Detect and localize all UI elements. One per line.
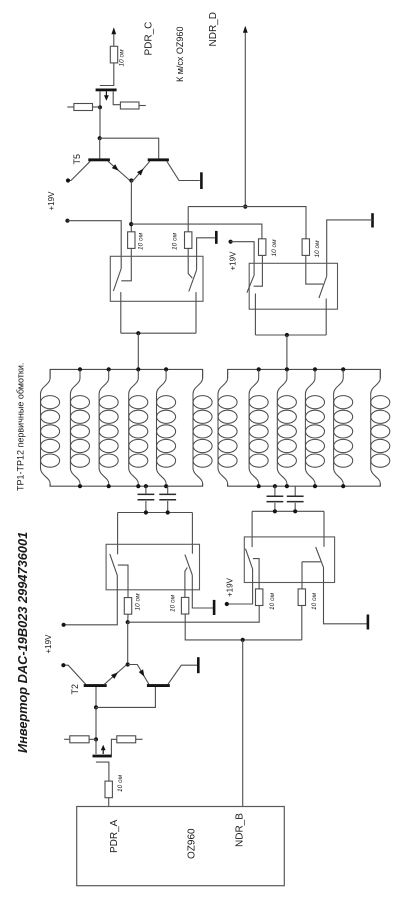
transistor T2a emitter leg: [105, 665, 127, 684]
terminal T-bar TB2: [371, 213, 374, 227]
junction bottom rail R3: [313, 484, 317, 488]
mosfet Q2 source wire: [99, 91, 101, 107]
wire U2 bus to transformer rail: [286, 335, 288, 369]
junction J9 T2 base node: [94, 705, 98, 709]
U2 left switch output wire: [254, 294, 256, 336]
mosfet Q2 body arrow: [104, 91, 109, 101]
junction U1 bus: [136, 331, 140, 335]
wire TB2 to box B2 right switch: [327, 220, 373, 276]
junction bottom rail L5: [144, 484, 148, 488]
transistor T2a base bar: [84, 684, 107, 687]
transformer winding TP3: [99, 370, 118, 486]
resistor R5 10om: [185, 232, 192, 249]
resistor R1 10om: [110, 46, 117, 63]
terminal T-bar TB5: [197, 657, 200, 673]
wire cap bus left: [118, 512, 193, 514]
junction J1: [98, 105, 102, 109]
switch module U4 box: [244, 537, 334, 583]
U1 right switch blade: [189, 270, 197, 292]
svg-text:ТР1-ТР12 первичные обмотки.: ТР1-ТР12 первичные обмотки.: [15, 363, 25, 491]
wire cap bus right: [252, 510, 324, 512]
mosfet Q1 channel bar: [93, 755, 112, 758]
junction bottom rail R4: [341, 484, 345, 488]
svg-text:10 ом: 10 ом: [169, 594, 176, 612]
wire U1 output bus: [121, 332, 196, 334]
terminal dot T5a collector: [66, 178, 70, 182]
wire R11 to NDR_B rail: [301, 606, 303, 640]
resistor R14 10om: [105, 781, 112, 798]
wire +19V rail lower: [128, 605, 260, 622]
transistor T5a collector leg: [68, 161, 90, 180]
wire bus leg to U4 left: [251, 511, 253, 547]
label T2: [70, 684, 80, 695]
svg-text:T2: T2: [70, 684, 80, 695]
junction J7 NDR_B rail: [241, 638, 245, 642]
capacitor C3: [267, 486, 284, 511]
svg-text:+19V: +19V: [44, 634, 53, 654]
wire R4 to B1 contact: [121, 248, 131, 280]
capacitor C2: [159, 486, 176, 512]
resistor R11 10om: [298, 589, 305, 606]
wire rail J4 to R6: [131, 224, 262, 239]
svg-text:10 ом: 10 ом: [314, 240, 321, 258]
resistor R9 10om: [181, 597, 188, 614]
junction bottom rail L3: [136, 484, 140, 488]
capacitor C1: [138, 486, 155, 512]
transformer winding TP11: [334, 370, 353, 486]
wire rail node to T2 emitters: [127, 622, 129, 664]
wire NDR_B down to OZ960: [242, 640, 244, 807]
label K m/sx OZ960: [175, 27, 185, 82]
mosfet Q2 drain wire: [113, 91, 120, 104]
junction J8 T2 emitters: [126, 662, 130, 666]
wire U1 bus to transformer rail: [137, 333, 139, 369]
terminal T-bar TB3: [213, 600, 216, 615]
junction top rail L1: [78, 367, 82, 371]
resistor R10 10om: [256, 589, 263, 606]
transformer winding TP1: [41, 370, 60, 486]
transistor T2a base wire: [95, 687, 97, 707]
transformer winding TP7: [218, 370, 237, 486]
junction cap bus C4: [293, 509, 297, 513]
transistor T2b base bar: [147, 684, 170, 687]
wire right group top rail: [228, 369, 381, 378]
svg-text:NDR_D: NDR_D: [208, 12, 219, 46]
svg-text:10 ом: 10 ом: [311, 592, 318, 610]
transformer winding TP4: [129, 370, 148, 486]
op-amp U5 OZ960 controller box: [77, 807, 285, 886]
wire R5 contact hook: [188, 248, 192, 278]
label TP1-TP12 primary windings: [15, 363, 25, 491]
switch module U1 box: [110, 256, 203, 301]
U3 left switch contact: [118, 565, 128, 598]
U3 right switch contact: [185, 568, 187, 598]
transistor T5b collector leg: [167, 161, 200, 180]
resistor R3: [120, 102, 145, 109]
mosfet Q1 body arrow: [101, 745, 106, 754]
resistor R8 10om: [124, 598, 131, 615]
wire U4 left feed to +19V: [227, 569, 253, 604]
junction J10: [94, 737, 98, 741]
wire +19V to box B1 left switch: [68, 221, 122, 269]
resistor R6 10om: [259, 239, 266, 256]
label R9 value: [169, 594, 176, 612]
mosfet Q1 gate wire: [96, 762, 109, 781]
label R8 value: [134, 593, 141, 611]
label +19V upper right: [228, 251, 237, 271]
label R5 value: [172, 232, 179, 250]
wire T5 emitters down: [130, 181, 132, 232]
wire U3 left output to +19V: [64, 575, 118, 624]
label OZ960: [187, 828, 198, 859]
svg-text:Инвертор DAC-19B023 2994736001: Инвертор DAC-19B023 2994736001: [15, 532, 30, 753]
U4 left switch contact: [253, 559, 259, 589]
U2 left switch blade: [247, 275, 254, 293]
junction bottom rail L4: [164, 484, 168, 488]
transformer winding TP2: [70, 370, 89, 486]
transistor T5a base bar: [88, 158, 110, 161]
junction J2 T5 base node: [98, 136, 102, 140]
capacitor C4: [287, 486, 304, 511]
wire base node to T2b: [96, 687, 155, 707]
U4 left switch blade: [246, 549, 253, 569]
terminal T-bar at T5b collector: [200, 172, 203, 189]
label R10 value: [269, 592, 276, 610]
wire R9 to NDR_B rail: [185, 614, 302, 640]
svg-text:10 ом: 10 ом: [118, 49, 125, 67]
U2 right switch output wire: [325, 299, 327, 336]
wire R5 up to NDR_D rail: [187, 207, 189, 232]
label R6 value: [271, 239, 278, 257]
transistor T5b base bar: [148, 158, 169, 161]
label +19V lower left: [44, 634, 53, 654]
U1 left switch blade: [113, 269, 121, 292]
wire right group bottom rail: [228, 484, 381, 487]
label R7 value: [314, 240, 321, 258]
svg-text:10 ом: 10 ом: [138, 232, 145, 250]
junction bottom rail R5: [273, 484, 277, 488]
label title Invertor DAC-19B023: [15, 532, 30, 753]
wire left group top rail: [50, 369, 203, 378]
resistor R13: [111, 736, 142, 755]
label R1 value: [118, 49, 125, 67]
junction top rail R4: [341, 367, 345, 371]
junction top rail L2: [107, 367, 111, 371]
svg-text:10 ом: 10 ом: [271, 239, 278, 257]
junction U2 bus: [285, 333, 289, 337]
node NDR_D arrow: [243, 26, 248, 207]
junction cap bus C2: [166, 510, 170, 514]
junction J3 T5 emitters: [129, 178, 133, 182]
svg-text:PDR_A: PDR_A: [109, 819, 120, 853]
junction J4: [129, 222, 133, 226]
label R4 value: [138, 232, 145, 250]
label +19V lower right: [225, 577, 234, 597]
wire TB1b to U1 right switch: [197, 238, 216, 270]
wire R8 to rail: [127, 614, 129, 622]
transistor T5b emitter leg: [131, 161, 150, 180]
wire J1 to T5 base node: [99, 107, 101, 138]
U1 right switch output wire: [195, 292, 197, 333]
svg-text:OZ960: OZ960: [187, 828, 198, 859]
junction cap bus C3: [273, 509, 277, 513]
resistor R2: [67, 104, 100, 111]
label R14 value: [117, 774, 124, 792]
terminal dot +19V P3: [62, 623, 66, 627]
svg-text:К м/сх OZ960: К м/сх OZ960: [175, 27, 185, 82]
terminal dot +19V P1: [65, 219, 69, 223]
svg-text:NDR_B: NDR_B: [234, 813, 245, 847]
U3 right switch blade: [185, 555, 192, 576]
svg-text:10 ом: 10 ом: [269, 592, 276, 610]
svg-text:PDR_C: PDR_C: [144, 22, 155, 56]
U4 right switch contact: [302, 562, 321, 589]
resistor R12: [64, 736, 96, 743]
junction bottom rail L2: [107, 484, 111, 488]
junction top rail R2: [285, 367, 289, 371]
terminal dot +19V P4: [225, 602, 229, 606]
label pin NDR_B: [234, 813, 245, 847]
label R11 value: [311, 592, 318, 610]
wire bus leg to U3 left: [117, 513, 119, 555]
label T5: [72, 154, 82, 165]
transformer winding TP12: [371, 370, 390, 486]
svg-text:+19V: +19V: [228, 251, 237, 271]
label pin PDR_A: [109, 819, 120, 853]
transistor T5a emitter leg: [108, 161, 130, 180]
junction top rail R1: [257, 367, 261, 371]
mosfet Q1 source wire: [95, 739, 97, 754]
resistor R7 10om: [302, 239, 309, 256]
wire U2 output bus: [255, 334, 326, 336]
transistor T5a base wire: [99, 138, 101, 158]
wire U3 right feed to T-bar: [192, 575, 213, 608]
node PDR_C output arrow: [111, 27, 116, 46]
resistor R4 10om: [128, 232, 135, 249]
label PDR_C: [144, 22, 155, 56]
U2 right switch blade: [319, 276, 327, 298]
junction top rail L4: [164, 367, 168, 371]
transistor T2a collector leg: [63, 665, 85, 684]
svg-text:+19V: +19V: [47, 191, 56, 211]
terminal dot +19V P2: [229, 240, 233, 244]
wire R14 to OZ960 PDR_A: [108, 798, 110, 807]
wire base node to T5b: [100, 138, 159, 158]
wire J9 to J10: [95, 707, 97, 739]
junction J5 NDR_D rail: [243, 205, 247, 209]
wire bus leg to U4 right: [323, 511, 325, 547]
mosfet Q2 channel bar: [96, 89, 117, 92]
terminal T-bar TB1b: [215, 231, 218, 244]
label NDR_D: [208, 12, 219, 46]
svg-text:T5: T5: [72, 154, 82, 165]
transformer winding TP10: [305, 370, 324, 486]
wire U4 right feed to T-bar: [324, 567, 368, 623]
transistor T2b emitter leg: [128, 665, 149, 685]
wire left group bottom rail: [50, 484, 203, 487]
wire R7 to B2 contact: [306, 255, 323, 284]
junction top rail L3: [136, 367, 140, 371]
transformer winding TP9: [277, 370, 296, 486]
wire R6 to B2 contact: [254, 255, 263, 286]
terminal T-bar TB4: [367, 615, 370, 630]
svg-text:10 ом: 10 ом: [117, 774, 124, 792]
junction J6: [126, 620, 130, 624]
switch module U3 box: [106, 544, 199, 590]
svg-text:10 ом: 10 ом: [134, 593, 141, 611]
svg-text:+19V: +19V: [225, 577, 234, 597]
wire NDR_D rail: [188, 207, 306, 239]
transformer winding TP8: [249, 370, 268, 486]
svg-text:10 ом: 10 ом: [172, 232, 179, 250]
junction bottom rail L1: [78, 484, 82, 488]
junction bottom rail R2: [285, 484, 289, 488]
wire R1 to Q2 gate: [100, 63, 114, 86]
junction cap bus C1: [144, 510, 148, 514]
label +19V upper left: [47, 191, 56, 211]
U1 left switch output wire: [120, 292, 122, 333]
junction top rail R3: [313, 367, 317, 371]
U4 right switch blade: [316, 547, 324, 567]
transformer winding TP5: [157, 370, 176, 486]
wire bus leg to U3 right: [191, 513, 193, 554]
wire +19V to box B2 left switch: [231, 242, 255, 276]
transistor T2b collector leg: [168, 665, 197, 684]
U3 left switch blade: [110, 554, 118, 575]
junction bottom rail R1: [257, 484, 261, 488]
terminal dot T2a collector: [61, 663, 65, 667]
transformer winding TP6: [193, 370, 212, 486]
switch module U2 box: [249, 263, 337, 309]
